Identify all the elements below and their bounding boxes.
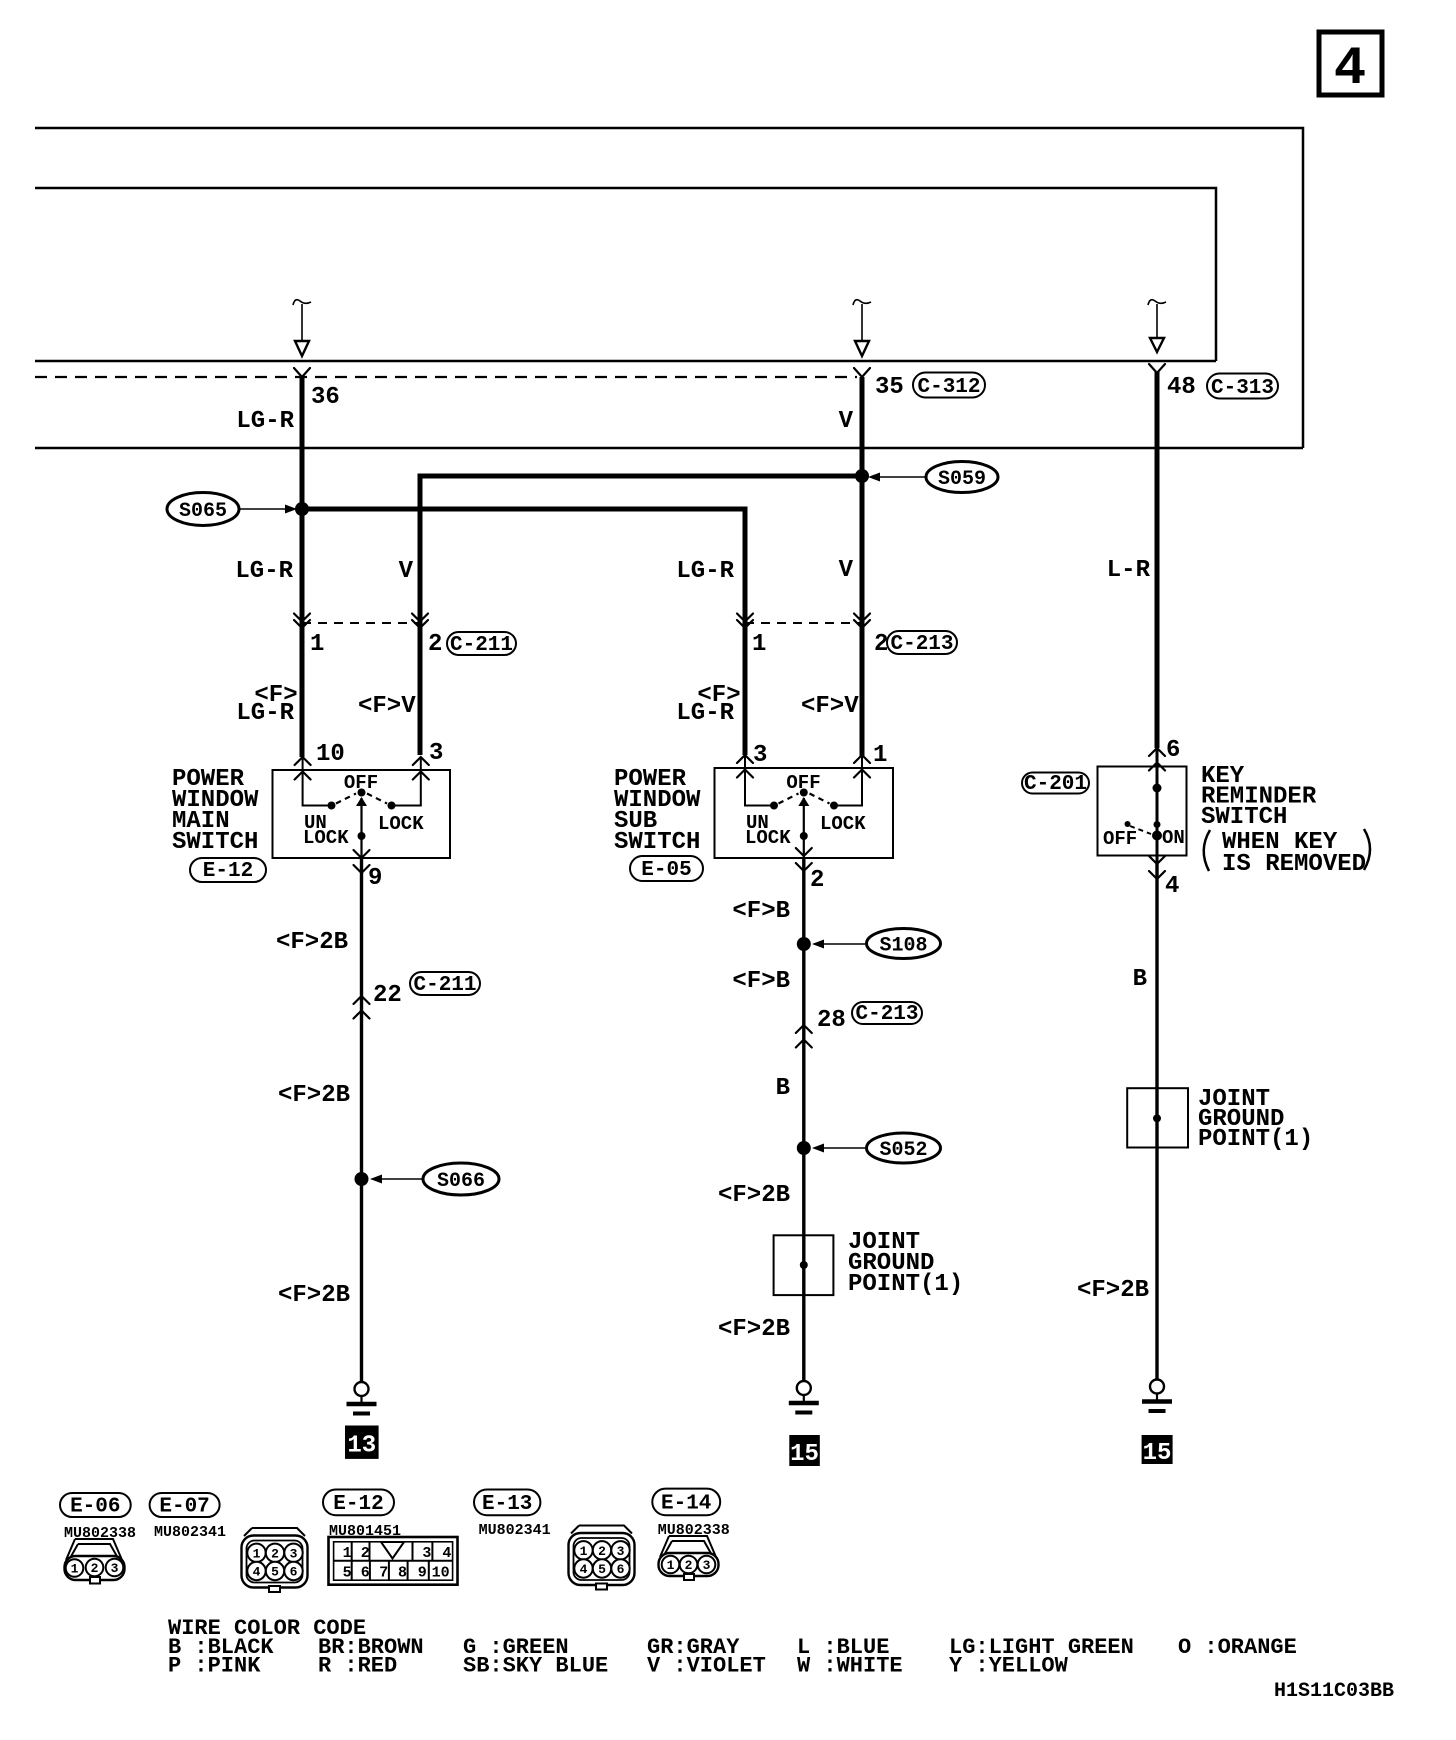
joint ground point box (right) bbox=[1127, 1088, 1188, 1147]
off-page break arrow above pin 35 bbox=[853, 300, 871, 356]
svg-text:B: B bbox=[776, 1075, 790, 1102]
svg-text:R :RED: R :RED bbox=[318, 1654, 397, 1679]
ground symbol (13) bbox=[347, 1382, 377, 1414]
svg-text:LOCK: LOCK bbox=[820, 813, 866, 835]
svg-text:C-213: C-213 bbox=[890, 633, 953, 656]
connector E-07 drawing bbox=[242, 1528, 308, 1592]
svg-text:2: 2 bbox=[361, 1545, 370, 1562]
outer harness frame box bbox=[35, 128, 1303, 448]
svg-text:4: 4 bbox=[1334, 39, 1366, 100]
svg-text:SB:SKY BLUE: SB:SKY BLUE bbox=[463, 1654, 608, 1679]
connector C-211 dashed line bbox=[302, 622, 420, 624]
svg-text:6: 6 bbox=[617, 1562, 625, 1577]
svg-text:5: 5 bbox=[271, 1565, 279, 1580]
svg-text:1: 1 bbox=[343, 1545, 352, 1562]
connector label C-313 bbox=[1207, 374, 1278, 401]
svg-text:<F>2B: <F>2B bbox=[718, 1316, 790, 1343]
svg-text:3: 3 bbox=[617, 1544, 625, 1559]
junction S059 bbox=[855, 469, 869, 483]
main switch UNLOCK label bbox=[303, 812, 349, 849]
svg-text:C-211: C-211 bbox=[450, 634, 513, 657]
svg-text:LOCK: LOCK bbox=[745, 827, 791, 849]
svg-text:15: 15 bbox=[790, 1441, 819, 1468]
connector label C-213 (lower) bbox=[852, 1002, 922, 1026]
svg-text:LOCK: LOCK bbox=[303, 827, 349, 849]
connector label C-213 bbox=[887, 631, 957, 656]
svg-text:<F>2B: <F>2B bbox=[278, 1082, 350, 1109]
main switch name text bbox=[172, 766, 259, 856]
sub switch internal contacts bbox=[745, 755, 862, 858]
power window main switch box bbox=[273, 770, 451, 858]
sub switch pin 2 exit marks bbox=[796, 848, 812, 871]
svg-text:E-06: E-06 bbox=[70, 1496, 120, 1519]
svg-text:S066: S066 bbox=[437, 1170, 485, 1193]
svg-text:13: 13 bbox=[347, 1433, 376, 1460]
connector marks C-211 pin 22 bbox=[354, 996, 370, 1019]
svg-text:4: 4 bbox=[580, 1562, 588, 1577]
ground ref box 15 (middle) bbox=[789, 1435, 820, 1468]
key switch pin 6 entry marks bbox=[1149, 748, 1165, 771]
svg-text:7: 7 bbox=[379, 1565, 388, 1582]
svg-text:Y :YELLOW: Y :YELLOW bbox=[949, 1654, 1069, 1679]
svg-text:5: 5 bbox=[343, 1565, 352, 1582]
joint ground point text (middle) bbox=[848, 1229, 963, 1298]
connector marks C-211 pin2 bbox=[412, 614, 428, 629]
connector label C-211 bbox=[447, 632, 516, 657]
wire L-R from pin 48 bbox=[1155, 372, 1160, 748]
svg-text:POINT(1): POINT(1) bbox=[1198, 1126, 1313, 1153]
svg-text:OFF: OFF bbox=[786, 772, 820, 794]
svg-text:SWITCH: SWITCH bbox=[172, 829, 258, 856]
svg-text:S059: S059 bbox=[938, 468, 986, 491]
connector label C-211 (lower) bbox=[410, 972, 480, 997]
splice S059 bbox=[868, 462, 998, 493]
key reminder switch name text bbox=[1201, 763, 1317, 831]
main switch pin 3 entry marks bbox=[413, 757, 429, 780]
svg-text:15: 15 bbox=[1143, 1440, 1172, 1467]
wire label (F) LG-R (sub pin 3) bbox=[676, 682, 740, 727]
terminal Y at pin 35 bbox=[854, 368, 870, 377]
splice S108 bbox=[797, 929, 941, 959]
svg-text:LG-R: LG-R bbox=[676, 558, 734, 585]
connector label E-13 bbox=[474, 1490, 540, 1517]
connector C-213 dashed line bbox=[745, 622, 862, 624]
ground wire from key switch pin 4 bbox=[1155, 864, 1158, 1379]
svg-text:MU802341: MU802341 bbox=[479, 1522, 551, 1539]
svg-text:O :ORANGE: O :ORANGE bbox=[1178, 1635, 1297, 1660]
main switch pin 9 exit marks bbox=[354, 850, 370, 873]
svg-text:E-05: E-05 bbox=[641, 859, 691, 882]
ground ref box 15 (right) bbox=[1142, 1435, 1173, 1467]
svg-text:1: 1 bbox=[310, 631, 324, 658]
svg-text:22: 22 bbox=[373, 982, 402, 1009]
svg-text:SWITCH: SWITCH bbox=[614, 829, 700, 856]
connector label C-312 bbox=[913, 373, 985, 400]
svg-text:1: 1 bbox=[580, 1544, 588, 1559]
svg-text:V: V bbox=[839, 557, 854, 584]
sub switch name text bbox=[614, 766, 701, 856]
svg-text:3: 3 bbox=[290, 1546, 298, 1561]
svg-text:<F>V: <F>V bbox=[801, 693, 859, 720]
svg-text:C-211: C-211 bbox=[413, 974, 476, 997]
sub switch pin 3 entry marks bbox=[737, 755, 753, 778]
svg-text:6: 6 bbox=[1166, 737, 1180, 764]
wire LG-R from pin 36 bbox=[300, 377, 305, 757]
svg-text:3: 3 bbox=[753, 742, 767, 769]
svg-text:10: 10 bbox=[316, 741, 345, 768]
svg-text:C-201: C-201 bbox=[1024, 773, 1087, 796]
svg-text:3: 3 bbox=[703, 1558, 711, 1573]
svg-text:S052: S052 bbox=[879, 1139, 927, 1162]
connector E-12 drawing bbox=[329, 1537, 458, 1585]
connector marks C-211 pin1 bbox=[294, 614, 310, 629]
svg-text:<F>2B: <F>2B bbox=[276, 929, 348, 956]
svg-text:1: 1 bbox=[253, 1546, 261, 1561]
svg-text:1: 1 bbox=[752, 631, 766, 658]
power window sub switch box bbox=[715, 768, 894, 858]
svg-text:<F>2B: <F>2B bbox=[1077, 1277, 1149, 1304]
svg-text:48: 48 bbox=[1167, 374, 1196, 401]
junction S065 bbox=[295, 502, 309, 516]
svg-text:E-14: E-14 bbox=[661, 1493, 711, 1516]
ground wire from sub switch pin 2 bbox=[802, 858, 805, 1381]
connector label E-05 bbox=[630, 856, 703, 882]
svg-text:<F>B: <F>B bbox=[732, 898, 790, 925]
key reminder switch box bbox=[1098, 767, 1187, 856]
main switch internal contacts bbox=[303, 757, 421, 858]
svg-text:28: 28 bbox=[817, 1007, 846, 1034]
svg-text:LG-R: LG-R bbox=[235, 558, 293, 585]
svg-text:H1S11C03BB: H1S11C03BB bbox=[1274, 1680, 1394, 1703]
svg-text:E-07: E-07 bbox=[159, 1496, 209, 1519]
svg-text:S065: S065 bbox=[179, 500, 227, 523]
svg-text:6: 6 bbox=[290, 1565, 298, 1580]
connector label C-201 bbox=[1022, 773, 1089, 797]
svg-text:3: 3 bbox=[111, 1561, 119, 1576]
svg-text:E-12: E-12 bbox=[333, 1493, 383, 1516]
svg-text:1: 1 bbox=[71, 1562, 79, 1577]
svg-text:MU802341: MU802341 bbox=[154, 1524, 226, 1541]
svg-text:LG-R: LG-R bbox=[236, 700, 294, 727]
svg-text:4: 4 bbox=[1165, 873, 1179, 900]
connector label E-06 bbox=[60, 1493, 131, 1519]
svg-text:P :PINK: P :PINK bbox=[168, 1654, 261, 1679]
connector label E-07 bbox=[150, 1493, 220, 1519]
key switch internal contacts bbox=[1125, 748, 1163, 864]
wire LG-R horizontal to sub switch bbox=[302, 509, 745, 755]
svg-text:2: 2 bbox=[810, 867, 824, 894]
svg-text:9: 9 bbox=[418, 1565, 427, 1582]
svg-text:<F>2B: <F>2B bbox=[278, 1282, 350, 1309]
terminal Y at pin 48 bbox=[1149, 364, 1165, 373]
splice S052 bbox=[797, 1133, 941, 1163]
svg-text:IS REMOVED: IS REMOVED bbox=[1222, 851, 1366, 878]
off-page break arrow above pin 48 bbox=[1148, 300, 1166, 352]
key switch pin 4 exit marks bbox=[1149, 856, 1165, 879]
svg-text:V: V bbox=[839, 408, 854, 435]
svg-text:E-13: E-13 bbox=[482, 1493, 532, 1516]
svg-text:SWITCH: SWITCH bbox=[1201, 804, 1287, 831]
svg-text:C-313: C-313 bbox=[1211, 377, 1274, 400]
svg-text:4: 4 bbox=[442, 1545, 451, 1562]
ground wire from main switch pin 9 bbox=[360, 858, 363, 1382]
svg-text:V :VIOLET: V :VIOLET bbox=[647, 1654, 766, 1679]
svg-text:<F>2B: <F>2B bbox=[718, 1182, 790, 1209]
inner harness frame box bbox=[35, 188, 1216, 361]
svg-text:LG-R: LG-R bbox=[236, 408, 294, 435]
svg-text:LG-R: LG-R bbox=[676, 700, 734, 727]
connector E-06 drawing bbox=[65, 1539, 125, 1584]
sub switch pin 1 entry marks bbox=[854, 755, 870, 778]
ground symbol (15 middle) bbox=[789, 1381, 819, 1413]
svg-text:ON: ON bbox=[1162, 827, 1185, 849]
terminal Y at pin 36 bbox=[294, 368, 310, 377]
svg-text:2: 2 bbox=[271, 1546, 279, 1561]
svg-text:10: 10 bbox=[432, 1565, 450, 1582]
svg-text:POINT(1): POINT(1) bbox=[848, 1271, 963, 1298]
svg-text:6: 6 bbox=[361, 1565, 370, 1582]
wire V horizontal to main switch bbox=[420, 476, 862, 755]
svg-text:C-213: C-213 bbox=[855, 1003, 918, 1026]
svg-text:4: 4 bbox=[253, 1565, 261, 1580]
svg-text:<F>V: <F>V bbox=[358, 693, 416, 720]
ground symbol (15 right) bbox=[1142, 1380, 1172, 1412]
dashed connector line C-312 bbox=[35, 376, 857, 378]
svg-text:OFF: OFF bbox=[1103, 828, 1137, 850]
connector marks C-213 pin2 bbox=[854, 614, 870, 629]
svg-text:2: 2 bbox=[685, 1558, 693, 1573]
svg-text:1: 1 bbox=[873, 742, 887, 769]
svg-text:E-12: E-12 bbox=[203, 860, 253, 883]
svg-text:L-R: L-R bbox=[1107, 557, 1151, 584]
wire V from pin 35 bbox=[860, 377, 865, 757]
connector label E-12 bbox=[190, 858, 266, 883]
page number box 4 bbox=[1319, 32, 1382, 100]
connector marks C-213 pin1 bbox=[737, 614, 753, 629]
svg-text:9: 9 bbox=[368, 865, 382, 892]
ground ref box 13 bbox=[345, 1426, 379, 1460]
svg-text:B: B bbox=[1133, 966, 1147, 993]
svg-text:1: 1 bbox=[667, 1558, 675, 1573]
svg-text:35: 35 bbox=[875, 374, 904, 401]
svg-text:8: 8 bbox=[398, 1565, 407, 1582]
wire color code legend bbox=[168, 1616, 1297, 1679]
svg-text:<F>B: <F>B bbox=[732, 968, 790, 995]
svg-text:2: 2 bbox=[598, 1544, 606, 1559]
svg-text:3: 3 bbox=[429, 740, 443, 767]
svg-text:V: V bbox=[399, 558, 414, 585]
svg-text:3: 3 bbox=[422, 1545, 431, 1562]
svg-text:2: 2 bbox=[91, 1561, 99, 1576]
connector E-13 drawing bbox=[569, 1526, 635, 1590]
wire label (F) LG-R (main pin 10) bbox=[236, 682, 297, 727]
svg-text:2: 2 bbox=[428, 631, 442, 658]
joint ground point box (middle) bbox=[774, 1235, 834, 1295]
key removed note text bbox=[1204, 829, 1370, 878]
svg-text:C-312: C-312 bbox=[917, 376, 980, 399]
svg-text:S108: S108 bbox=[879, 935, 927, 958]
splice S065 bbox=[167, 493, 297, 526]
connector marks C-213 pin 28 bbox=[796, 1025, 812, 1048]
connector label E-12 (bottom) bbox=[323, 1490, 394, 1517]
connector E-14 drawing bbox=[659, 1536, 719, 1580]
main switch pin 10 entry marks bbox=[295, 757, 311, 780]
svg-text:5: 5 bbox=[598, 1562, 606, 1577]
sub switch UNLOCK label bbox=[745, 812, 791, 849]
svg-text:OFF: OFF bbox=[344, 772, 378, 794]
svg-text:LOCK: LOCK bbox=[378, 813, 424, 835]
svg-text:W :WHITE: W :WHITE bbox=[797, 1654, 903, 1679]
splice S066 bbox=[355, 1163, 500, 1195]
svg-text:36: 36 bbox=[311, 384, 340, 411]
joint ground point text (right) bbox=[1198, 1086, 1313, 1153]
off-page break arrow above pin 36 bbox=[293, 300, 311, 356]
connector label E-14 bbox=[652, 1489, 720, 1516]
